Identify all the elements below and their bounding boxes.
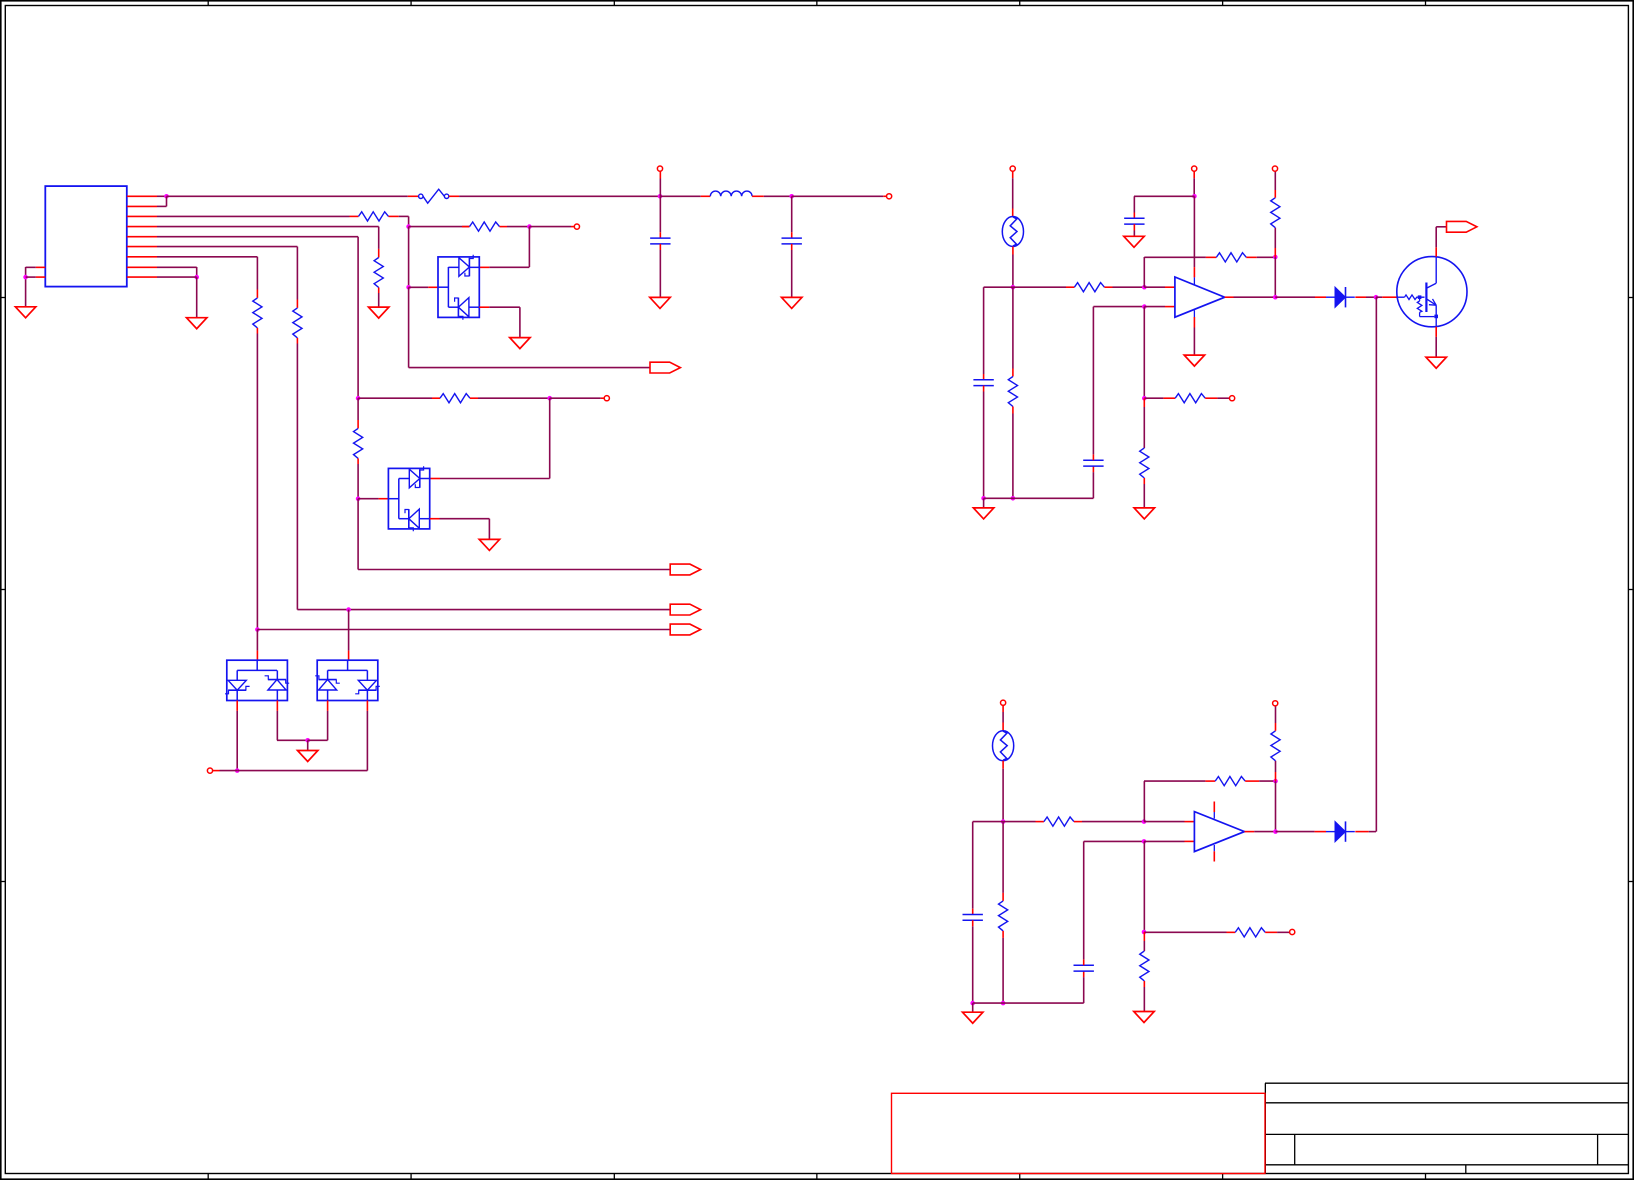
pin stub supply terminal stub (1193, 171, 1195, 178)
wire R17 to terminal (1275, 706, 1277, 723)
junction R12 row junction (1142, 396, 1147, 401)
wire R19 to ground (1143, 987, 1145, 1012)
pin stub R19 top stub (1143, 932, 1145, 941)
junction R2 output junction (527, 224, 532, 229)
resistor R2 (470, 222, 500, 231)
ground circuit B left ground (963, 1012, 983, 1023)
pin stub opamp A minus stub (1165, 286, 1175, 288)
opamp A vplus pin (1193, 277, 1195, 284)
wire lamp B node left (973, 821, 1003, 823)
wire cap A3 drop (1133, 196, 1135, 212)
junction R18 row junction (1142, 930, 1147, 935)
wire pin3 net drop 2 (408, 227, 410, 288)
pin stub R18 left stub (1227, 931, 1236, 933)
pin stub R4 left stub (432, 397, 440, 399)
wire pin1 to junction (157, 195, 167, 197)
wire R2 node drop to D1 (528, 227, 530, 267)
terminal VIN terminal (657, 166, 662, 171)
junction left pins junction (23, 275, 28, 280)
wire port1 row (358, 569, 670, 571)
wire D2 upper wire (440, 478, 550, 480)
pin stub lamp A top stub (1012, 209, 1014, 217)
wire cap A2 column bottom (1092, 472, 1094, 498)
pin stub terminal stub T1 (571, 226, 574, 228)
junction opamp A plus node (1142, 304, 1147, 309)
capacitor C B1 (963, 915, 983, 921)
junction output A node (1273, 295, 1278, 300)
wire left ground vertical (25, 267, 27, 307)
pin stub R8 left stub (1066, 286, 1074, 288)
junction port3 junction (255, 627, 260, 632)
wire port3 row (257, 629, 670, 631)
wire R18 row wire (1144, 931, 1227, 933)
wire pin8 horizontal (157, 266, 197, 268)
wire terminal to lamp A (1012, 178, 1014, 208)
terminal lamp B terminal (1001, 700, 1006, 705)
wire plus row A (1093, 306, 1144, 308)
wire collector to port (1436, 226, 1446, 228)
wire cap B2 column bottom (1083, 977, 1085, 1003)
wire minus B node riser (1143, 781, 1145, 822)
op-amp A body (1175, 277, 1225, 317)
pin stub R19 bottom stub (1143, 981, 1145, 987)
pin stub R1 right stub (389, 215, 399, 217)
pin stub diode DB left stub (1315, 831, 1327, 833)
ground pins89 ground (187, 318, 207, 329)
wire lamp B node drop (1002, 822, 1004, 893)
pin stub opamp A vplus stub (1193, 267, 1195, 277)
junction R4 output junction (547, 396, 552, 401)
pin stub opamp B minus stub (1185, 821, 1195, 823)
terminal VOUT terminal (887, 194, 892, 199)
wire D2 lower to corner (440, 518, 490, 520)
inductor L1 (710, 191, 752, 196)
ground R19 ground (1134, 1012, 1154, 1023)
pin stub U1 pin 3 (127, 215, 157, 217)
pin stub R13 top stub (1143, 398, 1145, 407)
pin stub C1 top stub (659, 232, 661, 238)
wire pin4 horizontal (157, 226, 379, 228)
resistor R16 (1215, 777, 1245, 786)
lamp lamp A (1002, 217, 1023, 247)
wire gnd A drop (983, 498, 985, 508)
wire supply junction left (1134, 195, 1194, 197)
wire D3 right drop (276, 711, 278, 740)
pin stub R5 top stub (357, 420, 359, 428)
pin stub cap B2 top stub (1083, 959, 1085, 965)
pin stub opamp A output stub (1225, 296, 1234, 298)
pin stub U1 pin 1 (127, 195, 157, 197)
wire R13 to ground (1143, 484, 1145, 508)
pin stub R11 top stub (1274, 190, 1276, 198)
pin stub R6 bottom stub (296, 338, 298, 344)
capacitor C2 (782, 238, 802, 244)
wire cap B1 column top (972, 822, 974, 909)
wire R18 to terminal (1277, 931, 1289, 933)
dual diode D4 (315, 660, 380, 700)
junction output B node (1273, 829, 1278, 834)
resistor R4 (440, 394, 470, 403)
capacitor C A2 (1083, 460, 1103, 466)
wire cap B1 column bottom (972, 926, 974, 1003)
pin stub cap A1 bottom stub (983, 386, 985, 392)
wire output B to diode (1276, 831, 1315, 833)
terminal terminal T3 (207, 768, 212, 773)
wire pin6 drop 2 (296, 344, 298, 610)
junction R4 row junction (356, 396, 361, 401)
pin stub U1 pin 8 (127, 266, 157, 268)
pin stub U1 left pin a (36, 266, 46, 268)
wire pin3 net drop (408, 216, 410, 226)
resistor R9 (1008, 377, 1017, 407)
wire pin3 to R1 (157, 215, 350, 217)
pin stub U1 pin 4 (127, 226, 157, 228)
pin stub D4 right exit stub (366, 701, 368, 711)
wire pin7 drop (256, 257, 258, 290)
wire pin8 drop (196, 267, 198, 277)
wire U1 left pin b to junction (26, 276, 36, 278)
wire feedback row B (1144, 780, 1205, 782)
pin stub box A top stub (256, 651, 258, 661)
junction gnd A junction (981, 496, 986, 501)
pin stub diode DB right stub (1355, 831, 1368, 833)
capacitor C1 (650, 238, 670, 244)
wire junction to terminal (529, 226, 571, 228)
pin stub L1 right stub (752, 195, 764, 197)
pin stub R10 left stub (1206, 256, 1216, 258)
junction pin1-pin2 junction (164, 194, 169, 199)
wire port0 row (409, 367, 650, 369)
wire diode OR vertical (1375, 297, 1377, 831)
opamp B vminus pin (1213, 845, 1215, 851)
wire R4 node drop to D2 (549, 398, 551, 478)
terminal terminal T2 (604, 396, 609, 401)
resistor R1 (359, 212, 389, 221)
junction opamp B plus node (1142, 839, 1147, 844)
wire junction to R4 (358, 397, 432, 399)
wire C1 to ground (659, 250, 661, 297)
wire plus node to opamp B (1144, 840, 1185, 842)
ground boxes ground (298, 751, 318, 762)
terminal R11 terminal (1272, 166, 1277, 171)
wire R1 to corner (399, 215, 409, 217)
pin stub lamp A bottom stub (1012, 247, 1014, 255)
wire box B feed (348, 610, 350, 651)
title block (1265, 1083, 1628, 1173)
wire diode DB to OR wire (1369, 831, 1376, 833)
junction bottom A junction (1011, 496, 1016, 501)
wire cap A1 column top (983, 287, 985, 374)
pin stub box B top stub (348, 651, 350, 661)
pin stub R2 left stub (462, 226, 470, 228)
wire terminal to junction (220, 770, 238, 772)
wire L1 to C2 node (764, 195, 792, 197)
terminal lamp A terminal (1010, 166, 1015, 171)
wire ground node drop (307, 740, 309, 750)
pin stub diode DA right stub (1355, 296, 1366, 298)
wire opamp B output wire (1254, 831, 1275, 833)
pin stub R17 bottom stub (1275, 772, 1277, 781)
wire bottom A row (984, 497, 1094, 499)
pin stub cap A3 bottom stub (1133, 224, 1135, 230)
junction R2 row junction (406, 224, 411, 229)
capacitor C A3 (1124, 218, 1144, 224)
pin stub cap A2 top stub (1092, 454, 1094, 460)
wire lamp B node to R14 (1003, 821, 1035, 823)
wire R11 lower wire (1274, 228, 1276, 248)
pin stub C2 top stub (791, 232, 793, 238)
pin stub opamp B vminus stub (1213, 851, 1215, 861)
wire R13 upper wire (1143, 407, 1145, 448)
pin stub U1 pin 2 (127, 205, 157, 207)
wire plus node drop (1143, 307, 1145, 399)
wire box A feed (256, 630, 258, 651)
wire feedback row A (1144, 256, 1206, 258)
dual diode D1 (438, 255, 479, 320)
pin stub R16 right stub (1245, 780, 1259, 782)
wire bottom B row (973, 1002, 1084, 1004)
wire minus node riser (1143, 257, 1145, 287)
pin stub D1 upper stub (479, 266, 489, 268)
ground R13 ground (1134, 508, 1154, 519)
wire D4 left to ground node (308, 739, 328, 741)
wire diode DA to base node (1366, 296, 1376, 298)
wire D4 right riser (366, 711, 368, 771)
pin stub C2 bottom stub (791, 244, 793, 250)
pin stub R9 top stub (1012, 369, 1014, 377)
pin stub lamp B bottom stub (1002, 761, 1004, 769)
pin stub R14 right stub (1074, 821, 1082, 823)
pin stub R6 top stub (296, 300, 298, 308)
junction D2 anode junction (356, 496, 361, 501)
pin stub R5 bottom stub (357, 458, 359, 464)
wire plus node to opamp (1144, 306, 1165, 308)
junction boxes ground junction (305, 738, 310, 743)
wire R17 lower wire (1275, 761, 1277, 772)
pin stub U1 pin 5 (127, 236, 157, 238)
pin stub cap A2 bottom stub (1092, 466, 1094, 472)
wire C1 node to inductor (660, 195, 701, 197)
wire R10 to feedback node (1257, 256, 1276, 258)
wire fuse to C1 node (459, 195, 660, 197)
ground IC left ground (15, 307, 35, 318)
wire emitter wire (1435, 337, 1437, 357)
junction feedback B node (1273, 779, 1278, 784)
junction base node (1374, 295, 1379, 300)
wire port2 row (297, 609, 670, 611)
wire R14 to minus node (1082, 821, 1144, 823)
wire opamp A output wire (1234, 296, 1276, 298)
pin stub R3 top stub (378, 249, 380, 258)
pin stub R16 left stub (1205, 780, 1215, 782)
wire opamp A vminus wire (1193, 328, 1195, 356)
wire junction to R2 (409, 226, 470, 228)
pin stub R9 bottom stub (1012, 407, 1014, 414)
pin stub cap A3 top stub (1133, 213, 1135, 219)
diode DB (1326, 821, 1355, 841)
wire pin1 net to fuse (167, 195, 408, 197)
pin stub R11 bottom stub (1274, 248, 1276, 257)
pin stub D3 right exit stub (276, 701, 278, 711)
junction pin8-9 junction (194, 275, 199, 280)
pin stub R12 right stub (1205, 397, 1217, 399)
pin stub R17 top stub (1275, 723, 1277, 731)
resistor R18 (1235, 928, 1265, 937)
wire pin9 horizontal (157, 276, 197, 278)
port port P4 (1447, 221, 1477, 232)
wire R2 to junction (507, 226, 529, 228)
pin stub D2 left stub (379, 498, 389, 500)
notes box (red rectangle) (892, 1093, 1266, 1173)
wire C2 node to output terminal (792, 195, 884, 197)
pin stub D1 lower stub (479, 306, 489, 308)
wire lamp node left (984, 286, 1013, 288)
wire pin6 horizontal (157, 246, 297, 248)
pin stub opamp B plus stub (1185, 840, 1195, 842)
junction box B junction (346, 607, 351, 612)
ground C2 ground (782, 297, 802, 308)
wire opamp A vplus wire (1193, 196, 1195, 267)
wire junction to terminal T2 (550, 397, 601, 399)
wire pin6 drop (296, 247, 298, 300)
pin stub cap B2 bottom stub (1083, 971, 1085, 977)
ground C1 ground (650, 297, 670, 308)
ground R3 ground (369, 307, 389, 318)
pin stub R4 right stub (470, 397, 478, 399)
wire bottom row (237, 770, 367, 772)
resistor R11 (1271, 198, 1280, 228)
wire base node to transistor (1376, 296, 1382, 298)
terminal R12 terminal (1230, 396, 1235, 401)
opamp B vplus pin (1213, 812, 1215, 819)
pin stub cap B1 top stub (972, 909, 974, 915)
wire C1 node down (659, 196, 661, 232)
wire R9 to bottom node (1012, 414, 1014, 499)
junction opamp B minus node (1142, 819, 1147, 824)
port port P2 (670, 604, 700, 615)
wire minus node to opamp (1144, 286, 1165, 288)
pin stub lamp B terminal stub (1002, 705, 1004, 712)
ground circuit A left ground (973, 508, 993, 519)
junction C2 node junction (789, 194, 794, 199)
resistor R19 (1140, 951, 1149, 981)
op-amp B body (1194, 812, 1244, 852)
wire pin4 drop (378, 227, 380, 249)
pin stub R8 right stub (1104, 286, 1112, 288)
wire lamp node drop (1012, 287, 1014, 368)
pin stub bottom terminal stub (213, 770, 220, 772)
capacitor C A1 (973, 380, 993, 386)
wire pin7 drop 2 (256, 334, 258, 630)
pin stub U1 pin 9 (127, 276, 157, 278)
wire junction to D1 stub (409, 286, 429, 288)
wire terminal to C1 node (659, 179, 661, 197)
wire feedback node drop (1274, 257, 1276, 297)
diode DA (1326, 287, 1355, 307)
resistor R5 (354, 428, 363, 458)
pin stub U1 pin 7 (127, 256, 157, 258)
wire pin5 horizontal (157, 236, 358, 238)
pin stub lamp B top stub (1002, 723, 1004, 731)
ground D1 ground (510, 338, 530, 349)
resistor R12 (1175, 394, 1205, 403)
dual diode D3 (225, 660, 289, 700)
wire plus B node drop (1143, 841, 1145, 932)
pin stub R2 right stub (500, 226, 508, 228)
transistor Q1 (1397, 257, 1467, 327)
resistor R8 (1074, 283, 1104, 292)
pin stub cap B1 bottom stub (972, 920, 974, 926)
pin stub R7 bottom stub (256, 328, 258, 334)
pin stub VIN terminal stub (659, 171, 661, 178)
pin stub opamp B output stub (1245, 831, 1255, 833)
wire R15 to bottom node (1002, 938, 1004, 1003)
pin stub D2 upper stub (430, 478, 440, 480)
wire D2 ground drop (488, 519, 490, 540)
junction bottom B junction (1001, 1001, 1006, 1006)
junction D1 anode junction (406, 285, 411, 290)
pin stub R15 top stub (1002, 893, 1004, 901)
pin stub R10 right stub (1246, 256, 1256, 258)
pin stub cap A1 top stub (983, 374, 985, 380)
resistor R7 (253, 298, 262, 328)
pin stub D4 left exit stub (327, 701, 329, 711)
wire D3 right to ground node (277, 739, 308, 741)
terminal terminal T1 (574, 224, 579, 229)
pin stub R3 bottom stub (378, 288, 380, 294)
pin stub R7 top stub (256, 290, 258, 298)
pin stub lamp A terminal stub (1012, 171, 1014, 178)
fuse F1 (419, 189, 449, 203)
pin stub R13 bottom stub (1143, 478, 1145, 484)
pin stub VOUT terminal stub (883, 195, 886, 197)
pin stub D1 left stub (428, 286, 438, 288)
resistor R14 (1044, 817, 1074, 826)
wire R12 row wire (1144, 397, 1163, 399)
wire pin5 drop (357, 237, 359, 399)
pin stub Q1 emitter stub (1435, 327, 1437, 337)
pin stub opamp A vminus stub (1193, 317, 1195, 328)
wire pin5 net drop 2 (357, 499, 359, 570)
wire collector wire (1435, 227, 1437, 248)
wire R5 to junction (357, 464, 359, 499)
wire D1 upper wire (489, 266, 529, 268)
pin stub transistor base stub (1382, 296, 1397, 298)
wire supply terminal drop (1193, 178, 1195, 196)
ground Q1 ground (1426, 357, 1446, 368)
pin stub R12 left stub (1163, 397, 1175, 399)
wire feedback B node drop (1275, 781, 1277, 832)
wire D3 left drop (236, 711, 238, 771)
pin stub U1 pin 6 (127, 246, 157, 248)
junction lamp A node (1011, 285, 1016, 290)
wire U1 left pin a to corner (26, 266, 36, 268)
wire pin9 ground drop (196, 277, 198, 318)
junction lamp B node (1001, 819, 1006, 824)
terminal opamp A supply terminal (1192, 166, 1197, 171)
pin stub D2 lower stub (430, 518, 440, 520)
wire D1 ground drop (519, 307, 521, 337)
wire R12 to terminal (1217, 397, 1229, 399)
wire R8 to minus node (1113, 286, 1145, 288)
pin stub R15 bottom stub (1002, 931, 1004, 938)
port port P0 (650, 362, 680, 373)
pin stub R18 right stub (1265, 931, 1277, 933)
wire lamp node to R8 (1013, 286, 1066, 288)
dual diode D2 (388, 466, 429, 531)
pin stub terminal stub T2 (601, 397, 604, 399)
pin stub R1 left stub (350, 215, 359, 217)
